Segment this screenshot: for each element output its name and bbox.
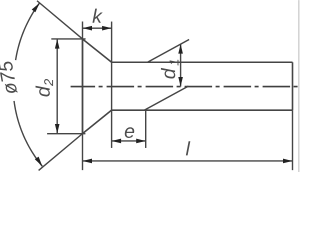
label d2 <box>36 79 54 97</box>
center line (axis, dash-dot) <box>71 86 299 88</box>
d2 bottom extension line <box>47 133 85 135</box>
label d1 <box>161 60 179 79</box>
shank top edge (outline) <box>112 61 293 63</box>
e right extension line <box>145 110 147 148</box>
label e <box>125 127 134 138</box>
d1 oblique top extension line <box>148 39 190 62</box>
lower cone edge (outline) <box>83 110 112 133</box>
label k <box>92 9 102 23</box>
technical drawing: countersunk head rivet with dimension annotations <box>0 0 300 172</box>
arrowhead k left <box>83 26 93 31</box>
head flat face (outline) <box>82 39 84 134</box>
angle dimension arc upper segment <box>16 3 40 60</box>
arrowhead e left <box>112 139 122 144</box>
shank bottom edge (outline) <box>112 109 293 111</box>
arrowhead k right <box>102 26 112 31</box>
e dimension line <box>112 140 146 142</box>
shank end face (outline) <box>292 62 294 110</box>
d1 oblique bottom extension line <box>144 86 188 110</box>
arrowhead d1 top <box>178 44 183 54</box>
l dimension line <box>83 160 293 162</box>
k + l left extension line (through flat face) <box>82 22 84 171</box>
k + e right extension line (through cone-shank junction) <box>111 22 113 148</box>
arrowhead arc bottom <box>35 157 43 167</box>
arrowhead d1 bottom <box>178 77 183 87</box>
arrowhead l right <box>283 159 293 164</box>
upper cone extension line for angle dim <box>37 1 83 39</box>
d2 top extension line <box>51 38 85 40</box>
lower cone extension line for angle dim <box>39 134 83 171</box>
l right extension line (below shank end) <box>292 110 294 170</box>
arrowhead d2 bottom <box>55 124 60 133</box>
page right border <box>298 0 300 172</box>
label l <box>186 141 190 155</box>
arrowhead arc top <box>32 3 40 12</box>
d1 dimension line <box>180 44 182 86</box>
upper cone edge (outline) <box>83 39 112 62</box>
k dimension line <box>83 27 112 29</box>
angle dimension arc lower segment <box>14 101 42 166</box>
arrowhead e right <box>136 139 146 144</box>
label angle 75 <box>0 62 18 93</box>
d2 dimension line <box>56 39 58 134</box>
arrowhead l left <box>83 159 93 164</box>
arrowhead d2 top <box>55 39 60 49</box>
